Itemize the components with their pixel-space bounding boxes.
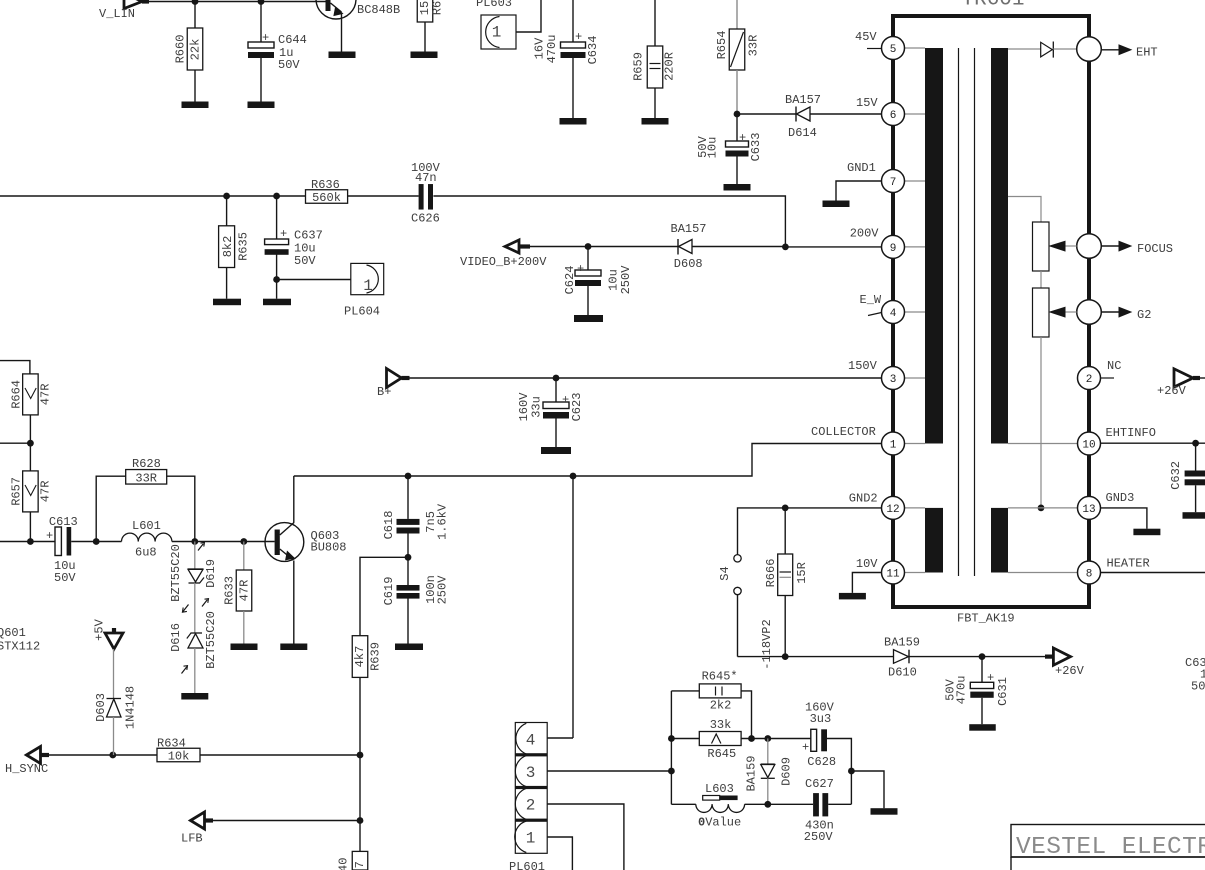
wire pin13 GND3 xyxy=(1008,507,1078,509)
GND3 ground xyxy=(1101,508,1147,529)
wire xyxy=(738,656,894,658)
diode D614 BA157 xyxy=(737,113,796,115)
wire xyxy=(0,541,55,543)
wire xyxy=(49,754,157,756)
svg-text:33u: 33u xyxy=(530,396,544,418)
wire xyxy=(172,541,275,543)
wire xyxy=(0,361,30,374)
svg-text:C619: C619 xyxy=(382,577,396,606)
wire xyxy=(359,755,361,870)
svg-text:S4: S4 xyxy=(718,566,732,580)
resistor R654 xyxy=(736,0,738,29)
svg-text:R659: R659 xyxy=(632,52,646,81)
node xyxy=(405,554,412,561)
svg-text:1: 1 xyxy=(492,24,502,42)
svg-text:4: 4 xyxy=(890,308,897,320)
pin 7 xyxy=(882,170,905,193)
ground xyxy=(231,644,258,651)
wire xyxy=(828,803,851,805)
svg-text:13: 13 xyxy=(1082,504,1095,516)
transistor Q603 BU808 xyxy=(265,523,304,562)
svg-text:200V: 200V xyxy=(850,227,880,241)
svg-text:+: + xyxy=(739,131,746,145)
wire pin1 xyxy=(548,837,573,870)
ground xyxy=(395,644,423,651)
svg-text:LFB: LFB xyxy=(181,832,203,846)
pin 12 xyxy=(882,496,905,519)
ground xyxy=(411,52,438,59)
svg-text:+26V: +26V xyxy=(1157,384,1187,398)
transformer TR601 outline xyxy=(893,16,1089,607)
wire pin4 xyxy=(548,737,574,739)
wire HEATER xyxy=(1101,572,1205,574)
svg-text:EHTINFO: EHTINFO xyxy=(1106,426,1156,440)
connector PL604 xyxy=(351,263,384,294)
svg-text:250V: 250V xyxy=(804,830,834,844)
svg-text:50V: 50V xyxy=(294,254,316,268)
port B+ xyxy=(387,369,402,388)
svg-text:8: 8 xyxy=(1086,569,1093,581)
capacitor C623 xyxy=(555,378,557,402)
wire emitter xyxy=(293,561,295,644)
wire xyxy=(0,195,306,197)
svg-text:C624: C624 xyxy=(563,266,577,295)
ground xyxy=(248,102,275,109)
svg-text:150V: 150V xyxy=(848,359,878,373)
svg-text:9: 9 xyxy=(890,243,897,255)
svg-text:8k2: 8k2 xyxy=(221,236,235,258)
resistor R640 (cut) xyxy=(352,851,368,870)
svg-text:33R: 33R xyxy=(135,472,157,486)
capacitor C627 xyxy=(813,793,819,816)
node xyxy=(570,473,577,480)
wire xyxy=(277,279,351,281)
svg-text:+: + xyxy=(802,741,809,755)
node xyxy=(27,440,34,447)
pin 2 NC xyxy=(1078,367,1101,390)
port LFB xyxy=(191,812,205,829)
pin stubs xyxy=(905,47,926,49)
svg-text:R640: R640 xyxy=(337,858,351,870)
ground xyxy=(1183,512,1205,519)
resistor R635 xyxy=(226,196,228,226)
svg-text:0Value: 0Value xyxy=(698,816,741,830)
svg-text:3: 3 xyxy=(526,764,536,782)
svg-text:TR601: TR601 xyxy=(961,0,1024,12)
wire xyxy=(0,442,30,444)
svg-text:BA157: BA157 xyxy=(671,222,707,236)
wire xyxy=(410,377,882,379)
svg-text:220R: 220R xyxy=(663,52,677,81)
svg-text:4k7: 4k7 xyxy=(353,861,367,870)
wire EHTINFO xyxy=(1101,442,1205,444)
title block xyxy=(1011,825,1205,858)
pin 3 xyxy=(882,367,905,390)
capacitor C618 xyxy=(407,476,409,519)
svg-text:1: 1 xyxy=(526,830,536,848)
ground xyxy=(182,102,209,109)
svg-text:STX112: STX112 xyxy=(0,640,40,654)
port VIDEO_B+200V xyxy=(505,240,519,253)
ground xyxy=(329,52,356,59)
potentiometer FOCUS xyxy=(1033,222,1050,271)
svg-text:560k: 560k xyxy=(312,191,341,205)
svg-text:4k7: 4k7 xyxy=(353,646,367,668)
svg-text:VIDEO_B+200V: VIDEO_B+200V xyxy=(460,255,547,269)
pin 9 xyxy=(882,235,905,258)
svg-text:FBT_AK19: FBT_AK19 xyxy=(957,612,1015,626)
inductor L603 xyxy=(671,803,695,805)
svg-text:BA157: BA157 xyxy=(785,93,821,107)
svg-text:C626: C626 xyxy=(411,212,440,226)
svg-text:EHT: EHT xyxy=(1136,46,1158,60)
node xyxy=(979,653,986,660)
svg-text:1N4148: 1N4148 xyxy=(124,686,138,729)
svg-text:C618: C618 xyxy=(382,511,396,540)
wire xyxy=(71,541,121,543)
resistor R657 xyxy=(29,443,31,471)
wire xyxy=(113,649,115,698)
secondary winding bar xyxy=(991,48,1008,444)
svg-text:BA159: BA159 xyxy=(884,636,920,650)
svg-text:R633: R633 xyxy=(222,576,236,605)
svg-text:10: 10 xyxy=(1082,440,1095,452)
zener D616 BZT55C20 xyxy=(194,583,196,633)
resistor R634 xyxy=(157,748,200,762)
ground xyxy=(724,184,751,191)
zener D619 BZT55C20 xyxy=(194,542,196,570)
wire xyxy=(737,595,739,657)
svg-text:+: + xyxy=(46,529,53,543)
svg-text:H_SYNC: H_SYNC xyxy=(5,762,48,776)
svg-text:PL603: PL603 xyxy=(476,0,512,10)
capacitor C634 xyxy=(572,0,574,42)
svg-text:C631: C631 xyxy=(996,677,1010,706)
svg-text:33k: 33k xyxy=(710,718,732,732)
ground xyxy=(574,315,603,322)
wire pin8 HEATER xyxy=(1008,572,1078,574)
ground xyxy=(871,808,898,815)
port +26V input xyxy=(1199,377,1205,379)
wire collector net xyxy=(294,444,882,477)
diode D609 BA159 xyxy=(767,739,769,765)
svg-text:R664: R664 xyxy=(10,380,24,409)
svg-text:+26V: +26V xyxy=(1055,664,1085,678)
svg-text:6: 6 xyxy=(890,110,897,122)
FOCUS output xyxy=(1077,234,1102,259)
svg-text:10V: 10V xyxy=(856,557,878,571)
resistor R666 xyxy=(784,508,786,554)
pin 5 xyxy=(882,37,905,60)
wire xyxy=(194,648,196,693)
resistor R664 xyxy=(23,374,39,415)
node xyxy=(192,0,199,5)
node xyxy=(223,193,230,200)
svg-text:1: 1 xyxy=(363,277,373,295)
port +26V xyxy=(1045,654,1053,658)
svg-text:C637: C637 xyxy=(294,229,323,243)
primary winding bar xyxy=(925,48,943,444)
wire pin3 xyxy=(548,770,672,772)
wire xyxy=(785,246,881,248)
ground xyxy=(280,644,307,651)
svg-text:2k2: 2k2 xyxy=(710,699,732,713)
svg-text:D619: D619 xyxy=(204,559,218,588)
svg-text:R639: R639 xyxy=(368,642,382,671)
wire xyxy=(348,195,419,197)
svg-text:15V: 15V xyxy=(856,96,878,110)
wire xyxy=(516,0,541,32)
node xyxy=(748,735,755,742)
wire to PL601 pin4 xyxy=(572,476,574,738)
wire xyxy=(851,771,884,808)
svg-text:470u: 470u xyxy=(955,676,969,705)
capacitor C628 xyxy=(811,729,817,751)
svg-text:C613: C613 xyxy=(49,515,78,529)
svg-text:PL601: PL601 xyxy=(509,860,545,870)
resistor R659 xyxy=(654,0,656,46)
node xyxy=(585,243,592,250)
svg-text:VESTEL ELECTRONICS: VESTEL ELECTRONICS xyxy=(1016,834,1205,861)
svg-text:R6: R6 xyxy=(431,1,445,15)
svg-text:C623: C623 xyxy=(570,393,584,422)
capacitor C613 xyxy=(55,527,61,556)
svg-text:+: + xyxy=(280,227,287,241)
svg-text:GND2: GND2 xyxy=(849,492,878,506)
node xyxy=(668,768,675,775)
svg-text:R657: R657 xyxy=(10,477,24,506)
wire left bus xyxy=(670,691,672,804)
node xyxy=(109,752,116,759)
svg-text:22k: 22k xyxy=(188,39,202,61)
svg-text:+: + xyxy=(575,30,582,44)
wire xyxy=(827,739,851,805)
svg-text:50V: 50V xyxy=(278,58,300,72)
pin 1 xyxy=(882,432,905,455)
node xyxy=(764,801,771,808)
svg-text:12: 12 xyxy=(886,504,899,516)
svg-text:3u3: 3u3 xyxy=(810,712,832,726)
wire GND2 row xyxy=(738,508,882,555)
resistor R628 xyxy=(96,476,126,541)
node xyxy=(1192,440,1199,447)
node xyxy=(782,653,789,660)
inductor L601 xyxy=(122,533,139,541)
svg-text:1: 1 xyxy=(890,440,897,452)
svg-text:C644: C644 xyxy=(278,33,307,47)
node xyxy=(668,735,675,742)
svg-text:47n: 47n xyxy=(415,171,437,185)
capacitor C644 xyxy=(260,2,262,43)
svg-text:C627: C627 xyxy=(805,777,834,791)
pin 8 xyxy=(1078,561,1101,584)
node xyxy=(405,473,412,480)
transistor Q6xx BC848B xyxy=(316,0,356,19)
wire xyxy=(982,656,1045,658)
svg-text:470u: 470u xyxy=(545,35,559,64)
diode D610 BA159 xyxy=(894,650,909,664)
svg-text:C633: C633 xyxy=(749,133,763,162)
resistor R645* 2k2 xyxy=(671,690,699,692)
svg-text:250V: 250V xyxy=(435,575,449,605)
node xyxy=(191,538,198,545)
svg-text:D614: D614 xyxy=(788,126,817,140)
node xyxy=(764,735,771,742)
GND1 ground xyxy=(836,181,882,201)
focus divider wire xyxy=(1008,197,1041,223)
ground xyxy=(642,118,669,125)
node xyxy=(273,193,280,200)
ground xyxy=(263,299,291,306)
svg-text:L601: L601 xyxy=(132,519,161,533)
wire xyxy=(530,246,678,248)
pin 4 E_W xyxy=(882,301,905,324)
node xyxy=(273,276,280,283)
svg-text:GND1: GND1 xyxy=(847,161,876,175)
svg-text:10k: 10k xyxy=(168,750,190,764)
pin 10 xyxy=(1078,432,1101,455)
svg-text:D610: D610 xyxy=(888,666,917,680)
ground xyxy=(181,693,208,700)
svg-text:250V: 250V xyxy=(619,265,633,295)
resistor R6xx (cut) xyxy=(417,0,433,22)
node xyxy=(782,244,789,251)
svg-text:E_W: E_W xyxy=(860,293,882,307)
svg-text:+: + xyxy=(562,393,569,407)
svg-text:BZT55C20: BZT55C20 xyxy=(204,611,218,669)
svg-text:4: 4 xyxy=(526,731,536,749)
svg-text:6u8: 6u8 xyxy=(135,546,157,560)
node xyxy=(357,752,364,759)
EHT rectifier diode xyxy=(1008,48,1041,50)
svg-text:50V: 50V xyxy=(54,571,76,585)
svg-text:5: 5 xyxy=(890,44,897,56)
wire pin10 EHTINFO xyxy=(1008,443,1078,445)
wire xyxy=(741,691,751,739)
spark gap S4 xyxy=(734,555,741,562)
port V_LIN xyxy=(124,0,142,9)
capacitor C633 xyxy=(736,114,738,141)
ground xyxy=(560,118,587,125)
svg-text:R645*: R645* xyxy=(702,670,738,684)
wire xyxy=(741,738,811,740)
svg-text:BC848B: BC848B xyxy=(357,3,400,17)
svg-text:COLLECTOR: COLLECTOR xyxy=(811,425,876,439)
node xyxy=(848,768,855,775)
svg-text:R660: R660 xyxy=(174,35,188,64)
capacitor C631 xyxy=(981,657,983,683)
svg-text:7: 7 xyxy=(890,177,897,189)
connector PL601 xyxy=(515,723,547,854)
svg-text:G2: G2 xyxy=(1137,308,1151,322)
G2 output xyxy=(1077,300,1102,325)
wire xyxy=(1040,337,1042,508)
svg-text:45V: 45V xyxy=(855,30,877,44)
svg-text:R666: R666 xyxy=(764,559,778,588)
svg-text:BZT55C20: BZT55C20 xyxy=(169,544,183,602)
svg-text:47R: 47R xyxy=(238,580,252,602)
10V ground xyxy=(852,573,881,593)
svg-text:R654: R654 xyxy=(715,31,729,60)
pin 6 xyxy=(882,103,905,126)
svg-text:50: 50 xyxy=(1191,680,1205,694)
ground xyxy=(969,724,996,731)
svg-text:R645: R645 xyxy=(707,747,736,761)
wire xyxy=(213,820,360,822)
resistor R660 xyxy=(194,2,196,29)
diode D603 1N4148 xyxy=(107,698,122,700)
svg-text:V_LIN: V_LIN xyxy=(99,7,135,21)
svg-text:+: + xyxy=(987,671,994,685)
primary winding bar lower xyxy=(925,508,943,573)
wire collector xyxy=(293,476,295,523)
capacitor C624 xyxy=(587,247,589,271)
svg-text:D616: D616 xyxy=(169,623,183,652)
svg-text:B+: B+ xyxy=(377,385,391,399)
svg-text:1.6kV: 1.6kV xyxy=(435,503,449,540)
diode D608 BA157 xyxy=(677,239,679,255)
node xyxy=(240,538,247,545)
svg-text:+: + xyxy=(262,31,269,45)
svg-text:-118VP2: -118VP2 xyxy=(760,619,774,669)
ground xyxy=(213,299,241,306)
svg-text:+5V: +5V xyxy=(93,618,107,640)
svg-text:FOCUS: FOCUS xyxy=(1137,242,1173,256)
wire xyxy=(433,196,785,247)
svg-text:C634: C634 xyxy=(586,36,600,65)
svg-text:C628: C628 xyxy=(807,755,836,769)
svg-text:L603: L603 xyxy=(705,782,734,796)
node xyxy=(782,505,789,512)
svg-text:47R: 47R xyxy=(38,481,52,503)
svg-text:R628: R628 xyxy=(132,457,161,471)
svg-text:+: + xyxy=(577,262,584,276)
svg-text:D609: D609 xyxy=(780,757,794,786)
ground xyxy=(541,447,571,454)
wire xyxy=(1040,271,1042,288)
resistor R636 xyxy=(306,190,348,204)
svg-text:HEATER: HEATER xyxy=(1107,557,1150,571)
wire xyxy=(149,1,326,3)
svg-text:GND3: GND3 xyxy=(1106,491,1135,505)
capacitor C619 xyxy=(407,557,409,585)
svg-text:D603: D603 xyxy=(94,693,108,722)
svg-text:2: 2 xyxy=(526,797,536,815)
svg-text:47R: 47R xyxy=(38,384,52,406)
svg-text:11: 11 xyxy=(886,569,900,581)
pin 13 xyxy=(1078,496,1101,519)
svg-text:R636: R636 xyxy=(311,178,340,192)
core xyxy=(958,48,960,576)
svg-text:33R: 33R xyxy=(747,35,761,57)
node xyxy=(1038,505,1045,512)
node xyxy=(553,375,560,382)
wire xyxy=(745,803,814,805)
resistor R645 33k xyxy=(671,738,699,740)
node xyxy=(734,111,741,118)
svg-text:10u: 10u xyxy=(706,137,720,159)
resistor R633 xyxy=(243,542,245,571)
wire xyxy=(359,677,361,755)
svg-text:BA159: BA159 xyxy=(745,755,759,791)
pin 11 xyxy=(882,561,905,584)
svg-text:R634: R634 xyxy=(157,737,186,751)
svg-text:R635: R635 xyxy=(237,232,251,261)
capacitor C626 xyxy=(419,184,424,210)
capacitor C637 xyxy=(276,196,278,239)
port H_SYNC xyxy=(26,747,40,764)
wire pin2 xyxy=(548,804,624,870)
